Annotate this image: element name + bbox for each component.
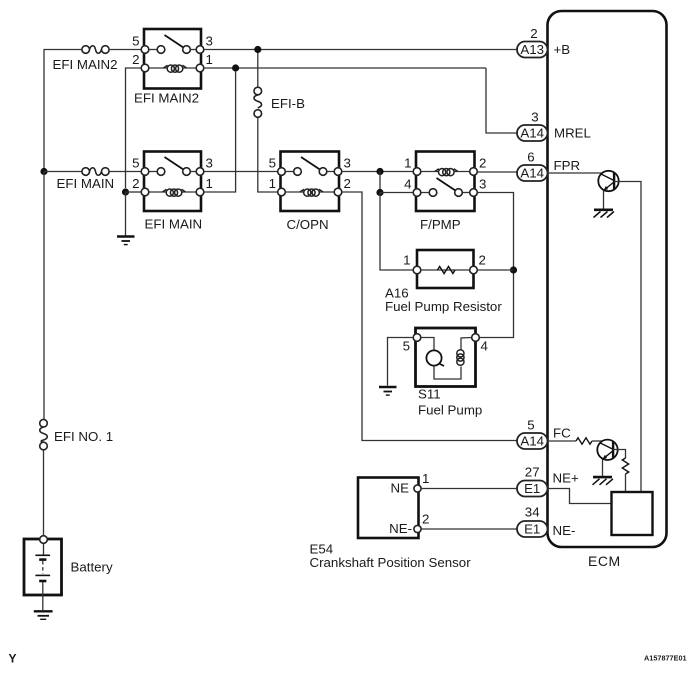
relay F/PMP xyxy=(404,152,486,233)
svg-text:EFI NO. 1: EFI NO. 1 xyxy=(54,429,113,444)
wire: fuse EFI-B to relay C/OPN pin 1 xyxy=(258,117,277,192)
wire: MREL line to ECM MREL pin xyxy=(486,68,518,133)
svg-text:EFI MAIN: EFI MAIN xyxy=(57,176,115,191)
svg-text:2: 2 xyxy=(530,26,537,41)
svg-text:1: 1 xyxy=(206,52,213,67)
transistor Q2 (FC driver) xyxy=(597,440,617,460)
wire: fuse EFI MAIN to relay EFI MAIN pin 5 xyxy=(109,171,144,173)
svg-text:1: 1 xyxy=(206,176,213,191)
svg-text:FC: FC xyxy=(553,426,571,441)
wire: relay EFI MAIN pin 3 to relay C/OPN pin 5 xyxy=(204,171,277,173)
svg-text:34: 34 xyxy=(525,505,540,520)
fuse EFI MAIN xyxy=(57,168,115,191)
wire: sensor NE to ECM NE+ xyxy=(421,488,518,490)
svg-text:E1: E1 xyxy=(524,481,540,496)
svg-text:1: 1 xyxy=(403,253,410,268)
connector A13 pin 2 (+B) xyxy=(517,26,570,58)
wire: relay EFI MAIN2 pin 3 to ECM +B xyxy=(204,49,518,51)
wire: FPR pin to transistor base xyxy=(548,172,603,174)
connector E1 pin 27 (NE+) xyxy=(517,465,579,497)
fuse EFI-B xyxy=(254,53,305,117)
connector E1 pin 34 (NE-) xyxy=(517,505,575,539)
svg-text:3: 3 xyxy=(206,34,213,49)
svg-text:F/PMP: F/PMP xyxy=(420,217,461,232)
ground: fuel pump ground xyxy=(379,387,397,395)
fuse EFI NO. 1 xyxy=(40,419,113,449)
node: F/PMP pin 4 junction xyxy=(376,189,383,196)
svg-text:NE+: NE+ xyxy=(553,471,579,486)
svg-text:3: 3 xyxy=(206,156,213,171)
connector A14 pin 6 (FPR) xyxy=(517,150,580,182)
node: EFI-B tap on +B wire xyxy=(254,46,261,53)
ground: battery ground xyxy=(34,611,53,619)
svg-text:Fuel Pump Resistor: Fuel Pump Resistor xyxy=(385,299,502,314)
svg-text:2: 2 xyxy=(132,176,139,191)
svg-text:C/OPN: C/OPN xyxy=(287,217,329,232)
svg-text:5: 5 xyxy=(403,339,410,354)
node: MREL junction xyxy=(232,64,239,71)
svg-text:EFI-B: EFI-B xyxy=(271,96,305,111)
wire: fuse EFI MAIN2 to relay pin 5 xyxy=(109,49,144,51)
svg-text:EFI MAIN2: EFI MAIN2 xyxy=(53,57,118,72)
connector A14 pin 5 (FC) xyxy=(517,418,571,450)
resistor A16 Fuel Pump Resistor xyxy=(385,250,502,314)
crankshaft position sensor E54 xyxy=(310,471,472,570)
wire: relay C/OPN pin 3 to relay F/PMP pin 1 xyxy=(342,171,413,173)
fuel pump S11 xyxy=(403,328,488,418)
svg-text:2: 2 xyxy=(132,52,139,67)
svg-text:5: 5 xyxy=(132,156,139,171)
svg-text:3: 3 xyxy=(344,156,351,171)
relay C/OPN xyxy=(269,152,351,233)
wire: relay F/PMP pin 2 to ECM FPR pin xyxy=(478,171,518,173)
wire: transistor Q2 emitter to ground xyxy=(602,459,604,476)
resistor: Q2 collector resistor xyxy=(622,458,628,474)
wire: junction to relay EFI MAIN pin 2 xyxy=(126,191,142,193)
wire: junction down to resistor A16 pin 1 xyxy=(380,193,414,271)
svg-text:5: 5 xyxy=(527,418,534,433)
svg-text:5: 5 xyxy=(269,156,276,171)
wire: relay EFI MAIN2 pin 2 to ground line xyxy=(126,68,142,188)
svg-text:EFI MAIN2: EFI MAIN2 xyxy=(134,91,199,106)
battery xyxy=(24,536,113,610)
svg-text:Crankshaft Position Sensor: Crankshaft Position Sensor xyxy=(310,555,472,570)
wire: junction to relay F/PMP pin 4 xyxy=(380,192,413,194)
svg-text:1: 1 xyxy=(404,156,411,171)
svg-text:A157877E01: A157877E01 xyxy=(644,654,687,663)
wire: MREL junction down to relay EFI MAIN pin 1 xyxy=(204,71,236,192)
svg-text:MREL: MREL xyxy=(554,126,591,141)
svg-text:Y: Y xyxy=(9,652,17,666)
fuse EFI MAIN2 xyxy=(53,46,118,72)
node: junction on C/OPN-F/PMP wire xyxy=(376,168,383,175)
svg-text:FPR: FPR xyxy=(554,158,581,173)
svg-text:EFI MAIN: EFI MAIN xyxy=(145,217,203,232)
wire: NE+ pin into monitor block xyxy=(548,489,612,504)
wire: fuse EFI NO. 1 to battery xyxy=(43,450,45,536)
svg-text:3: 3 xyxy=(479,177,486,192)
relay EFI MAIN2 xyxy=(132,29,213,106)
wire: fuel pump pin 5 to ground xyxy=(388,338,414,386)
svg-text:3: 3 xyxy=(531,110,538,125)
wire: transistor Q1 emitter to ground xyxy=(603,191,605,209)
ground: Q2 emitter ground xyxy=(593,477,614,485)
svg-text:A14: A14 xyxy=(520,434,544,449)
wire: left vertical battery feed xyxy=(43,172,45,420)
svg-text:4: 4 xyxy=(404,177,411,192)
relay EFI MAIN xyxy=(132,152,213,232)
wire: transistor Q2 collector to pull-up resistor xyxy=(613,450,625,459)
wire: resistor A16 pin 2 to F/PMP pin 3 line xyxy=(478,269,514,271)
svg-text:ECM: ECM xyxy=(588,553,621,569)
svg-text:A14: A14 xyxy=(520,166,544,181)
svg-text:2: 2 xyxy=(479,156,486,171)
ground: relay coils ground xyxy=(117,237,135,245)
transistor Q1 (FPR driver) xyxy=(598,171,618,191)
svg-text:2: 2 xyxy=(422,512,429,527)
block: ECM internal module xyxy=(612,492,653,535)
svg-text:4: 4 xyxy=(481,339,488,354)
wire: relay F/PMP pin 3 down to fuel pump pin 4 xyxy=(478,193,514,338)
svg-text:27: 27 xyxy=(525,465,540,480)
wire: transistor Q1 collector down to monitor block xyxy=(614,182,641,493)
ECM box xyxy=(548,11,667,547)
connector A14 pin 3 (MREL) xyxy=(517,110,591,142)
node: resistor A16 pin 2 junction xyxy=(510,266,517,273)
svg-text:1: 1 xyxy=(422,471,429,486)
wire: FC pin to resistor xyxy=(548,440,577,442)
svg-text:1: 1 xyxy=(269,176,276,191)
wire: sensor NE- to ECM NE- xyxy=(421,528,518,530)
node: battery feed to EFI MAIN fuse xyxy=(40,168,47,175)
svg-text:A14: A14 xyxy=(520,126,544,141)
svg-text:NE-: NE- xyxy=(389,521,412,536)
svg-text:2: 2 xyxy=(479,253,486,268)
svg-text:S11: S11 xyxy=(418,387,441,402)
ground: Q1 emitter ground xyxy=(594,210,615,218)
svg-text:A13: A13 xyxy=(520,42,544,57)
wire: resistor to transistor Q2 base xyxy=(592,440,603,442)
svg-text:E1: E1 xyxy=(524,522,540,537)
svg-text:NE-: NE- xyxy=(553,523,576,538)
svg-text:NE: NE xyxy=(391,481,410,496)
wire: junction down to ground xyxy=(125,192,127,236)
wire: battery feed top horizontal +B line xyxy=(44,50,82,172)
wire: junction down to F/PMP pin 4 junction xyxy=(379,172,381,193)
svg-text:Battery: Battery xyxy=(71,560,113,575)
svg-text:6: 6 xyxy=(527,150,534,165)
node: ground junction at relay EFI MAIN pin 2 xyxy=(122,188,129,195)
wire: relay C/OPN pin 2 down to ECM FC line xyxy=(342,192,518,441)
svg-text:+B: +B xyxy=(554,42,571,57)
wire: relay EFI MAIN2 pin 1 to MREL junction xyxy=(204,67,486,69)
svg-text:5: 5 xyxy=(132,34,139,49)
svg-text:2: 2 xyxy=(344,176,351,191)
resistor: FC base resistor xyxy=(576,438,592,444)
svg-text:Fuel Pump: Fuel Pump xyxy=(418,403,482,418)
wire: junction to fuse EFI MAIN xyxy=(44,171,82,173)
wire: resistor to monitor block xyxy=(625,474,627,492)
